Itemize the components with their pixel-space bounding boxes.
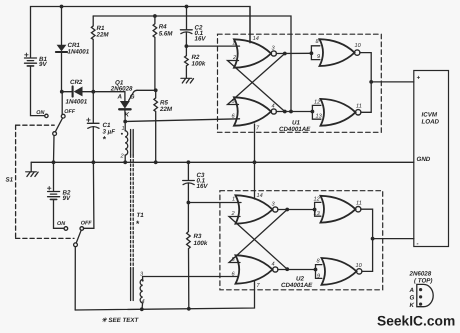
node: bottom rail / T1 pin4 junction xyxy=(140,307,144,311)
wire: B1 negative to switch S1a ON contact xyxy=(31,67,45,116)
wire: U1 pin 14 from top rail xyxy=(249,7,251,43)
wire: Q1 gate to R5 top node xyxy=(137,89,156,91)
node: GND rail / T1 pin2 junction xyxy=(123,160,127,164)
node: U2 output4 feedback junction xyxy=(285,267,289,271)
svg-text:9V: 9V xyxy=(39,61,47,68)
svg-text:100k: 100k xyxy=(194,240,208,247)
wire: U1 pin 4 output to pins 12,13 xyxy=(276,111,312,113)
svg-text:22M: 22M xyxy=(96,32,110,39)
svg-text:12: 12 xyxy=(314,197,321,203)
svg-text:4: 4 xyxy=(142,299,145,305)
wire: anode node to Q1 anode xyxy=(93,91,125,93)
svg-text:+: + xyxy=(417,75,421,82)
wire: U2 pin 4 output to pins 8,9 xyxy=(278,269,316,271)
svg-text:12: 12 xyxy=(314,100,321,106)
svg-text:4: 4 xyxy=(272,104,275,110)
svg-text:9: 9 xyxy=(317,274,320,280)
svg-text:100k: 100k xyxy=(192,61,206,68)
IC U2 dashed package box xyxy=(220,191,383,290)
switch S1 section b (ON/OFF) xyxy=(64,227,84,310)
wire: to ICVM load minus terminal xyxy=(373,238,414,240)
wire: GND rail xyxy=(31,161,414,163)
IC U1 dashed package box xyxy=(218,34,382,132)
node: U2 outputs / load junction xyxy=(371,237,375,241)
op-amp U2 gate B (NOR pins 5,6,4) xyxy=(236,255,278,283)
svg-text:2N6028: 2N6028 xyxy=(110,85,133,92)
capacitor C2 xyxy=(180,7,192,47)
wire: U2 pin 2 stub + feedback diagonal from pin4 node xyxy=(229,217,287,270)
node: C3 / R3 / U2 pin1 junction xyxy=(187,201,191,205)
svg-text:S1: S1 xyxy=(6,177,14,184)
wire: U2 pins 12,13 input tie xyxy=(315,202,321,216)
wire: U2 pins 8,9 input tie xyxy=(316,265,322,279)
node: Q1 cathode / T1 pin1 / U1 pin6 junction xyxy=(123,120,127,124)
svg-text:A: A xyxy=(117,94,123,101)
svg-text:10: 10 xyxy=(356,263,363,269)
ground (earth) at left end of GND rail xyxy=(26,162,38,176)
svg-text:-: - xyxy=(417,241,419,248)
svg-text:CD4001AE: CD4001AE xyxy=(279,126,311,133)
transformer T1 primary winding xyxy=(125,122,128,163)
capacitor C1 xyxy=(87,92,99,163)
node: U1 outputs / load junction xyxy=(369,80,373,84)
node: rail2 / R4 top xyxy=(153,14,157,18)
svg-text:9V: 9V xyxy=(63,195,71,202)
svg-text:1: 1 xyxy=(232,197,235,203)
node: GND rail / C3 top junction xyxy=(187,160,191,164)
svg-text:OFF: OFF xyxy=(81,221,92,227)
node: top rail / C2 junction xyxy=(185,5,189,9)
svg-text:16V: 16V xyxy=(195,36,207,43)
wire: cathode node to U1 pin 6 xyxy=(125,119,239,122)
node: U1 output4 feedback junction xyxy=(283,110,287,114)
wire: +feedback rail (R1 top to U1 pin4 node) xyxy=(93,16,291,112)
node: CR1 cathode / CR2 anode / S1a OFF junction xyxy=(60,90,64,94)
op-amp U2 gate C (NOR pins 12,13,11) xyxy=(321,196,361,223)
wire: to ICVM load plus terminal xyxy=(371,81,414,83)
battery B2 xyxy=(48,162,65,228)
node: U2 pins 12-13 tie junction xyxy=(313,208,317,212)
svg-text:LOAD: LOAD xyxy=(422,119,440,126)
svg-text:14: 14 xyxy=(253,36,259,42)
transformer T1 secondary winding xyxy=(140,277,238,310)
wire: -9V bottom rail xyxy=(75,284,254,310)
svg-text:13: 13 xyxy=(314,211,321,217)
wire: U2 pin 3 output to pins 12,13 xyxy=(278,209,315,211)
svg-text:1: 1 xyxy=(122,126,125,132)
resistor R2 xyxy=(185,46,189,78)
svg-text:4: 4 xyxy=(272,262,275,268)
svg-text:✳ SEE TEXT: ✳ SEE TEXT xyxy=(102,317,140,324)
wire: CR1 cathode node down to switch S1a OFF contact xyxy=(61,92,63,115)
node: C2 bottom / R2 / U1 pin1 junction xyxy=(185,44,189,48)
ICVM LOAD box xyxy=(414,71,449,247)
S1 mechanical linkage (dashed) xyxy=(16,125,74,238)
battery B1 xyxy=(25,53,37,66)
svg-text:( TOP): ( TOP) xyxy=(414,278,432,285)
node: GND rail / U1 pin7-U2 pin14 junction xyxy=(253,160,257,164)
wire: U1 pin10 + pin11 outputs to ICVM load + xyxy=(360,53,371,113)
svg-text:GND: GND xyxy=(417,156,431,163)
node: bottom rail / R3 bottom junction xyxy=(187,307,191,311)
node: U1 pins 12-13 tie junction xyxy=(311,110,315,114)
transformer T1 core xyxy=(131,130,134,301)
svg-text:16V: 16V xyxy=(197,183,209,190)
svg-text:5.6M: 5.6M xyxy=(159,31,174,38)
op-amp U1 gate B (NOR pins 5,6,4) xyxy=(234,97,276,125)
op-amp U1 gate C (NOR pins 8,9,10) xyxy=(320,39,360,66)
svg-text:22M: 22M xyxy=(159,106,173,113)
wire: U1 pins 8,9 input tie xyxy=(311,46,320,60)
svg-text:1: 1 xyxy=(232,40,235,46)
resistor R5 xyxy=(154,90,158,162)
wire: U2 pin 14 from GND rail xyxy=(254,162,256,199)
svg-text:2N6028: 2N6028 xyxy=(409,271,432,278)
node: U1 output4 / rail2 junction xyxy=(289,110,293,114)
node: U1 pins 8-9 tie junction xyxy=(310,51,314,55)
svg-text:1N4001: 1N4001 xyxy=(66,99,88,106)
resistor R1 xyxy=(91,16,95,92)
T1 primary phasing dot xyxy=(121,133,123,135)
svg-text:14: 14 xyxy=(257,193,263,199)
svg-text:11: 11 xyxy=(356,201,362,207)
wire: U2 pin 7 to bottom rail xyxy=(254,282,256,285)
wire: +9V top rail xyxy=(31,7,251,58)
op-amp U1 gate D (NOR pins 12,13,11) xyxy=(321,99,361,126)
wire: C3 node to U2 pin 1 xyxy=(188,202,241,204)
op-amp U2 gate D (NOR pins 8,9,10) xyxy=(322,258,362,285)
svg-text:11: 11 xyxy=(356,104,362,110)
resistor R4 xyxy=(153,16,157,90)
T1 secondary phasing dot xyxy=(142,280,144,282)
wire: U1 pin 2 stub + feedback diagonal from pin4 node xyxy=(228,61,285,112)
wire: U2 pin 5 stub + feedback diagonal from pin3 node xyxy=(229,210,287,263)
wire: U1 pin 7 to GND rail xyxy=(254,124,256,162)
wire: C2 node to U1 pin 1 xyxy=(186,45,239,47)
node: GND rail / switch S1a pole + B2 junction xyxy=(52,160,56,164)
svg-text:G: G xyxy=(410,295,415,302)
svg-text:K: K xyxy=(410,302,415,309)
svg-text:SeekIC.com: SeekIC.com xyxy=(377,314,455,329)
node: GND rail / R5 bottom junction xyxy=(154,160,158,164)
svg-text:13: 13 xyxy=(316,114,323,120)
svg-text:1N4001: 1N4001 xyxy=(68,49,90,56)
svg-text:CD4001AE: CD4001AE xyxy=(281,282,313,289)
svg-text:9: 9 xyxy=(317,54,320,60)
svg-text:K: K xyxy=(125,112,130,119)
wire: U1 pin 5 stub + feedback diagonal from pin3 node xyxy=(228,54,285,105)
svg-text:R4: R4 xyxy=(159,24,167,31)
node: GND rail / C1 column junction xyxy=(92,160,96,164)
2N6028 package outline (TOP view) xyxy=(417,284,433,306)
wire: U2 pin11 + pin10 outputs to ICVM load minus xyxy=(361,209,373,271)
ground (earth) below R2 xyxy=(181,78,194,83)
node: gate divider node (R4/R5/Q1-G) xyxy=(154,88,158,92)
wire: C1 bottom column to switch S1b OFF contact xyxy=(84,162,94,228)
node: U2 output3 feedback junction xyxy=(285,208,289,212)
op-amp U2 gate A (NOR pins 1,2,3) xyxy=(236,195,278,223)
node: CR2 cathode / R1 / C1 junction xyxy=(91,90,95,94)
svg-text:ON: ON xyxy=(36,110,44,116)
svg-text:ICVM: ICVM xyxy=(422,112,438,119)
diode CR2 xyxy=(62,86,94,96)
wire: U1 pin 3 output to pins 8,9 xyxy=(276,52,311,54)
op-amp U1 gate A (NOR pins 1,2,3) xyxy=(234,39,276,67)
svg-text:ON: ON xyxy=(57,221,65,227)
node: U2 pins 8-9 tie junction xyxy=(314,268,318,272)
svg-text:OFF: OFF xyxy=(64,109,75,115)
svg-text:CR2: CR2 xyxy=(70,79,83,86)
node: top rail / CR1 anode junction xyxy=(60,5,64,9)
resistor R3 xyxy=(187,203,191,309)
transistor Q1 2N6028 (PUT) xyxy=(119,90,137,121)
capacitor C3 xyxy=(183,162,195,202)
node: U1 output3 feedback junction xyxy=(283,52,287,56)
switch S1 section a (ON/OFF) xyxy=(45,114,65,162)
wire: U1 pins 12,13 input tie xyxy=(312,105,321,119)
diode CR1 xyxy=(56,7,67,92)
svg-text:10: 10 xyxy=(355,43,362,49)
svg-text:A: A xyxy=(409,287,415,294)
svg-text:G: G xyxy=(130,94,135,101)
